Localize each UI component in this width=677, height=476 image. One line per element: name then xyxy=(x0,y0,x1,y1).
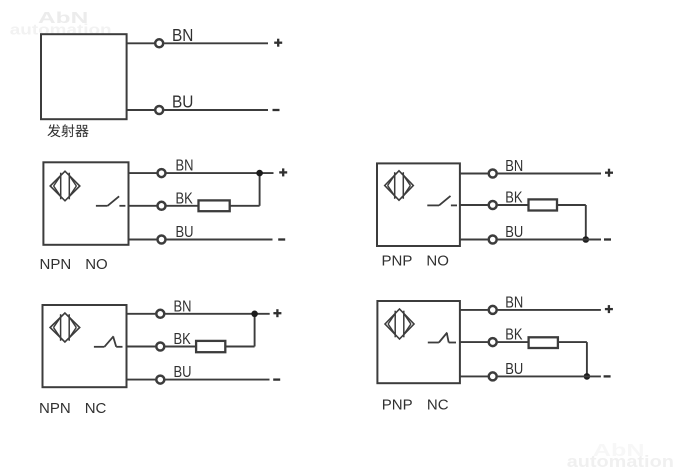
svg-text:BU: BU xyxy=(172,93,193,112)
label BK (NPN-NO) xyxy=(176,190,194,208)
transmitter U1 box xyxy=(41,34,127,119)
label BU (NPN-NC) xyxy=(174,364,192,382)
switch contact NC (NPN-NC) xyxy=(94,336,123,347)
terminal circle BU (NPN-NO) xyxy=(158,236,166,244)
svg-text:PNP: PNP xyxy=(382,396,413,413)
terminal circle BN (PNP-NC) xyxy=(489,306,497,314)
switch contact NO (PNP-NO) xyxy=(427,196,457,206)
svg-text:NO: NO xyxy=(426,252,449,269)
sensor PNP-NC box xyxy=(377,301,460,383)
label BU (transmitter) xyxy=(172,93,193,112)
wire BK (PNP-NO) xyxy=(460,204,488,206)
wire BU (NPN-NO) xyxy=(129,239,157,241)
optical sensor symbol (NPN-NC) xyxy=(50,313,80,342)
wire BU (PNP-NC) xyxy=(460,375,488,377)
terminal circle BU (PNP-NC) xyxy=(489,372,497,380)
svg-text:NC: NC xyxy=(85,400,107,417)
node - (NPN-NC) xyxy=(273,378,280,380)
node - (PNP-NC) xyxy=(604,375,611,377)
wire BK (NPN-NO) xyxy=(129,205,157,207)
junction node (PNP-NC) xyxy=(584,373,591,380)
resistor load (PNP-NO) xyxy=(529,199,558,210)
node - (NPN-NO) xyxy=(278,238,285,240)
wire BN (PNP-NO) xyxy=(460,173,488,175)
label BN (PNP-NO) xyxy=(505,158,523,176)
svg-text:BN: BN xyxy=(172,26,193,45)
terminal circle BN (NPN-NO) xyxy=(158,169,166,177)
wire load to rail (NPN-NC) xyxy=(225,314,254,347)
resistor load (NPN-NO) xyxy=(199,200,230,211)
svg-text:automation: automation xyxy=(567,451,674,470)
terminal circle BN (PNP-NO) xyxy=(489,170,497,178)
label NPN NC (NPN-NC) xyxy=(39,400,107,417)
sensor NPN-NC box xyxy=(43,305,127,387)
node + (PNP-NO) xyxy=(605,169,613,177)
wire BN to plus (NPN-NO) xyxy=(166,172,273,174)
wire BK to load (NPN-NC) xyxy=(165,346,196,348)
terminal circle BU (NPN-NC) xyxy=(156,376,164,384)
wire BK to load (PNP-NO) xyxy=(498,204,529,206)
label BU (PNP-NO) xyxy=(505,224,523,242)
wire load to rail (PNP-NC) xyxy=(558,342,587,376)
node - (transmitter) xyxy=(273,109,280,111)
optical sensor symbol (PNP-NO) xyxy=(385,171,414,200)
wire BN (transmitter to terminal) xyxy=(127,42,155,44)
wire BK to load (NPN-NO) xyxy=(166,205,198,207)
node + (PNP-NC) xyxy=(605,305,613,313)
svg-text:PNP: PNP xyxy=(382,252,413,269)
wire BU (NPN-NC) xyxy=(127,379,156,381)
terminal circle BK (NPN-NC) xyxy=(156,343,164,351)
wire BN (NPN-NC) xyxy=(127,313,156,315)
terminal circle BU (transmitter) xyxy=(155,106,163,114)
wire BU (PNP-NO) xyxy=(460,239,488,241)
wire BN to plus (PNP-NO) xyxy=(498,173,601,175)
node + (transmitter) xyxy=(274,39,282,47)
wire BU (transmitter to terminal) xyxy=(127,109,155,111)
wire load to rail (NPN-NO) xyxy=(230,173,260,206)
optical sensor symbol (PNP-NC) xyxy=(385,309,414,339)
label BU (NPN-NO) xyxy=(176,224,194,242)
label BN (NPN-NO) xyxy=(176,158,194,176)
wire BU to minus (PNP-NO) xyxy=(498,239,601,241)
label BN (PNP-NC) xyxy=(505,294,523,312)
wire BU to minus (PNP-NC) xyxy=(498,375,601,377)
label BK (PNP-NO) xyxy=(505,189,523,207)
node + (NPN-NC) xyxy=(273,309,281,317)
label BU (PNP-NC) xyxy=(505,361,523,379)
wire BU to minus (NPN-NC) xyxy=(165,379,269,381)
junction node (NPN-NC) xyxy=(251,311,258,318)
watermark top-left AbN automation xyxy=(10,9,112,38)
label 发射器 xyxy=(47,124,88,137)
label BN (transmitter) xyxy=(172,26,193,45)
wire BU to minus (NPN-NO) xyxy=(166,239,272,241)
wire BK (NPN-NC) xyxy=(127,346,156,348)
terminal circle BN (transmitter) xyxy=(155,39,163,47)
terminal circle BK (PNP-NC) xyxy=(489,338,497,346)
label NPN NO (NPN-NO) xyxy=(40,256,108,273)
sensor NPN-NO box xyxy=(43,162,128,245)
wire BN (PNP-NC) xyxy=(460,309,488,311)
terminal circle BN (NPN-NC) xyxy=(156,310,164,318)
wire load to rail (PNP-NO) xyxy=(557,205,586,240)
svg-text:NPN: NPN xyxy=(39,400,71,417)
wire BK to load (PNP-NC) xyxy=(498,341,529,343)
terminal circle BU (PNP-NO) xyxy=(489,236,497,244)
svg-text:automation: automation xyxy=(10,21,112,38)
wire BN to plus (PNP-NC) xyxy=(498,309,601,311)
label PNP NC (PNP-NC) xyxy=(382,396,449,413)
terminal circle BK (PNP-NO) xyxy=(489,201,497,209)
sensor PNP-NO box xyxy=(377,163,460,246)
wire BN to plus xyxy=(164,42,268,44)
wire BN to plus (NPN-NC) xyxy=(165,313,270,315)
watermark bottom-right AbN automation xyxy=(567,440,674,471)
label BK (PNP-NC) xyxy=(505,327,523,345)
resistor load (PNP-NC) xyxy=(529,337,558,348)
optical sensor symbol (NPN-NO) xyxy=(50,171,80,201)
label BK (NPN-NC) xyxy=(174,331,192,349)
junction node (NPN-NO) xyxy=(256,170,263,177)
switch contact NO (NPN-NO) xyxy=(96,196,126,206)
node - (PNP-NO) xyxy=(604,238,611,240)
wire BU to minus xyxy=(164,109,268,111)
switch contact NC (PNP-NC) xyxy=(428,333,456,343)
node + (NPN-NO) xyxy=(279,168,287,176)
svg-text:NPN: NPN xyxy=(40,256,72,273)
label PNP NO (PNP-NO) xyxy=(382,252,449,269)
svg-text:NC: NC xyxy=(427,396,449,413)
terminal circle BK (NPN-NO) xyxy=(158,202,166,210)
wire BK (PNP-NC) xyxy=(460,341,488,343)
junction node (PNP-NO) xyxy=(583,236,590,243)
label BN (NPN-NC) xyxy=(174,298,192,316)
resistor load (NPN-NC) xyxy=(196,341,225,352)
svg-text:NO: NO xyxy=(85,256,108,273)
wire BN (NPN-NO) xyxy=(129,172,157,174)
